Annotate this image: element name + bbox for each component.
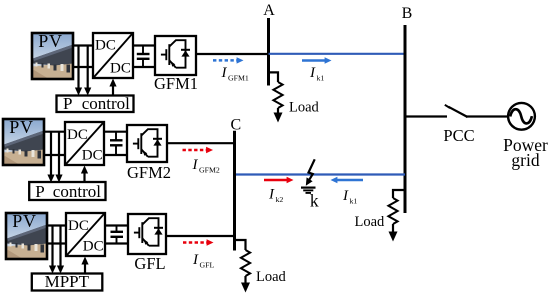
AC source power grid <box>508 103 535 130</box>
svg-text:DC: DC <box>95 38 116 54</box>
current arrow I_GFM2 (red dashed) <box>183 147 214 153</box>
svg-text:GFM2: GFM2 <box>199 166 220 175</box>
bus C <box>233 131 236 251</box>
svg-text:I: I <box>342 188 349 204</box>
control signal arrow P control 2 to DC2 <box>81 166 88 184</box>
wire bus B to PCC switch <box>405 115 447 117</box>
wire GFM1 to bus A <box>196 53 268 55</box>
measurement tap wire 1 to P control 2 <box>47 132 54 183</box>
measurement tap wire 2 to MPPT <box>57 226 64 274</box>
label I_k2 <box>268 187 283 205</box>
wire GFM2 to bus C <box>167 142 235 144</box>
svg-text:Load: Load <box>289 100 320 116</box>
controller P control 2 <box>29 182 105 201</box>
measurement tap wire 2 to P control 1 <box>84 46 91 96</box>
converter DC/DC 2 <box>65 122 104 165</box>
svg-text:I: I <box>268 187 275 203</box>
label I_k1 bottom <box>342 188 357 206</box>
svg-text:I: I <box>309 65 316 81</box>
PV array PV2 (photo box) <box>3 117 44 165</box>
svg-text:P: P <box>35 182 44 201</box>
label I_GFL <box>192 252 214 270</box>
svg-text:A: A <box>263 2 275 19</box>
svg-text:DC: DC <box>68 218 89 234</box>
svg-text:I: I <box>221 65 228 81</box>
svg-text:I: I <box>192 157 199 173</box>
measurement tap wire 1 to MPPT <box>49 226 56 274</box>
measurement tap wire 2 to P control 2 <box>55 132 62 183</box>
svg-text:C: C <box>230 117 241 134</box>
svg-text:DC: DC <box>83 238 104 254</box>
wire DC1 to GFM1 (bottom) <box>133 66 155 68</box>
svg-text:k: k <box>310 191 319 211</box>
blue line bus A to bus B <box>269 53 406 55</box>
svg-text:MPPT: MPPT <box>45 272 90 291</box>
svg-text:GFM1: GFM1 <box>154 74 198 93</box>
blue line bus C to bus B <box>235 173 406 175</box>
converter DC/DC 1 <box>93 33 133 78</box>
wire PV1 to DC1 (top) <box>73 44 94 46</box>
wire PV2 to DC2 (bottom) <box>44 154 67 156</box>
svg-text:GFM1: GFM1 <box>228 74 249 83</box>
svg-text:Load: Load <box>355 214 386 230</box>
svg-text:k2: k2 <box>276 195 284 204</box>
wire PV1 to DC1 (bottom) <box>73 66 94 68</box>
load branch at bus B: stub wire <box>393 190 405 198</box>
current arrow I_GFM1 (blue dashed) <box>213 57 244 63</box>
label I_GFM1 <box>221 65 249 83</box>
svg-text:GFL: GFL <box>134 254 165 273</box>
load resistor at bus B <box>388 198 397 224</box>
dc-link capacitor C2 <box>110 132 123 155</box>
svg-text:grid: grid <box>511 150 539 170</box>
converter DC/DC 3 <box>66 213 105 256</box>
svg-text:control: control <box>53 182 101 201</box>
load arrow at bus B <box>389 224 398 242</box>
current arrow I_GFL (red dashed) <box>183 239 214 245</box>
load resistor at bus A <box>273 82 282 108</box>
svg-text:P: P <box>63 94 72 113</box>
wire DC3 to GFL (bottom) <box>105 242 128 244</box>
svg-text:DC: DC <box>67 127 88 143</box>
svg-text:Load: Load <box>256 269 287 285</box>
bus B <box>404 25 407 213</box>
load arrow at bus A <box>274 108 283 123</box>
wire PCC to grid source <box>466 115 509 117</box>
svg-text:k1: k1 <box>350 197 358 206</box>
svg-text:k1: k1 <box>317 74 325 83</box>
svg-text:PCC: PCC <box>443 126 474 145</box>
load branch at bus A: stub wire <box>269 72 279 82</box>
PV array PV3 (photo box) <box>6 211 47 259</box>
inverter GFM2 <box>127 125 171 182</box>
svg-text:I: I <box>192 252 199 268</box>
controller P control 1 <box>57 94 134 113</box>
svg-text:DC: DC <box>110 60 131 76</box>
current arrow I_k2 (red) <box>264 177 294 183</box>
inverter GFL <box>128 214 166 273</box>
fault lightning arrow k <box>306 159 315 186</box>
svg-text:GFM2: GFM2 <box>127 163 171 182</box>
fault ground symbol <box>301 188 316 193</box>
wire DC2 to GFM2 (top) <box>104 131 127 133</box>
label Power grid <box>503 135 548 170</box>
controller MPPT <box>32 272 103 291</box>
current arrow I_k1 top (blue) <box>302 57 332 63</box>
current arrow I_k1 bottom (blue, pointing left) <box>331 177 364 183</box>
svg-text:DC: DC <box>82 147 103 163</box>
wire GFL to bus C <box>166 235 235 237</box>
load arrow at bus C <box>241 276 250 293</box>
PV array PV1 (photo box) <box>32 31 73 79</box>
inverter GFM1 <box>154 36 198 93</box>
svg-text:B: B <box>402 5 413 22</box>
control signal arrow P control 1 to DC1 <box>109 79 116 97</box>
wire PV3 to DC3 (top) <box>46 224 67 226</box>
measurement tap wire 1 to P control 1 <box>75 46 82 96</box>
load branch at bus C: stub wire <box>235 240 246 250</box>
PCC breaker switch <box>445 105 468 117</box>
wire DC3 to GFL (top) <box>105 224 128 226</box>
label I_GFM2 <box>192 157 220 175</box>
dc-link capacitor C1 <box>137 46 150 68</box>
control signal arrow MPPT to DC3 <box>81 257 88 275</box>
label I_k1 top <box>309 65 324 83</box>
svg-text:control: control <box>82 94 130 113</box>
bus A <box>267 18 270 86</box>
svg-text:GFL: GFL <box>200 261 215 270</box>
wire DC1 to GFM1 (top) <box>133 44 155 46</box>
wire PV3 to DC3 (bottom) <box>46 242 67 244</box>
load resistor at bus C <box>241 250 250 276</box>
dc-link capacitor C3 <box>111 226 124 244</box>
wire DC2 to GFM2 (bottom) <box>104 154 127 156</box>
wire PV2 to DC2 (top) <box>44 131 67 133</box>
